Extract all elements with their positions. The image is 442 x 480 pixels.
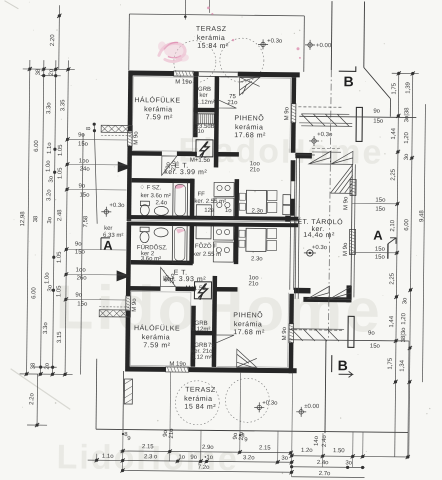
svg-text:FÕZÕ F.: FÕZÕ F. bbox=[195, 243, 218, 250]
faint diagonal top-left corner bbox=[4, 1, 18, 9]
left dim top connector bbox=[23, 68, 75, 71]
et tarolo window upper bbox=[350, 179, 356, 195]
porch bottom dashed edge bbox=[289, 329, 344, 332]
outer wall bottom bbox=[126, 367, 166, 372]
svg-text:2.4o: 2.4o bbox=[322, 435, 328, 447]
porch corner line bbox=[389, 99, 391, 117]
pink dots scattered bbox=[207, 6, 302, 58]
outer wall left bbox=[128, 71, 133, 132]
section line B top 2 bbox=[363, 1, 366, 67]
svg-text:±0.00: ±0.00 bbox=[304, 404, 320, 410]
svg-text:9o: 9o bbox=[75, 292, 82, 298]
lightning bolt upper bbox=[200, 141, 209, 158]
svg-text:1.12m²: 1.12m² bbox=[192, 327, 211, 333]
svg-text:M 9o: M 9o bbox=[284, 106, 290, 120]
side strip line bbox=[93, 124, 98, 224]
terasz upper outline bbox=[129, 14, 304, 16]
svg-text:1,75: 1,75 bbox=[392, 82, 398, 94]
bathroom bottom wall lower bbox=[131, 260, 193, 265]
left dim verticals bbox=[27, 60, 30, 374]
right dim verticals bbox=[395, 73, 399, 457]
svg-text:2.20: 2.20 bbox=[50, 34, 56, 46]
svg-text:1,34: 1,34 bbox=[400, 359, 406, 371]
kitchen right wall lower bbox=[234, 224, 239, 264]
left dim bottom connector bbox=[20, 373, 73, 376]
left window sill bar upper bbox=[101, 125, 132, 132]
porch top floor line bbox=[299, 116, 416, 117]
kitchen left wall lower bbox=[189, 224, 194, 264]
svg-text:14,4o m²: 14,4o m² bbox=[303, 232, 335, 239]
svg-text:3o: 3o bbox=[345, 460, 352, 466]
svg-text:9o: 9o bbox=[368, 331, 375, 337]
svg-text:kerámia: kerámia bbox=[184, 396, 212, 403]
svg-text:2.9o: 2.9o bbox=[202, 445, 214, 451]
et tarolo level mark bbox=[307, 250, 313, 256]
B marker bottom bbox=[332, 355, 353, 377]
bottom row 2 bbox=[88, 460, 292, 462]
piheno upper inner outline bbox=[220, 76, 290, 79]
level cross +0.00 top bbox=[305, 40, 315, 50]
svg-text:2.48: 2.48 bbox=[57, 209, 63, 221]
et tarolo left thin wall bbox=[295, 158, 296, 299]
svg-text:2.4o: 2.4o bbox=[156, 200, 168, 206]
porch top pillar bbox=[356, 107, 362, 141]
bottom row 3 bbox=[123, 470, 292, 472]
toilet upper bbox=[140, 201, 149, 206]
svg-text:FF: FF bbox=[197, 192, 205, 198]
et tarolo top stairs bbox=[309, 151, 353, 164]
col right wall upper bbox=[214, 76, 219, 167]
section line B continuation bbox=[328, 70, 331, 340]
svg-text:B: B bbox=[344, 73, 354, 89]
annex top step thin line bbox=[295, 154, 315, 156]
svg-text:1.50: 1.50 bbox=[333, 448, 345, 454]
svg-text:12,98: 12,98 bbox=[20, 211, 26, 227]
svg-text:1.05: 1.05 bbox=[57, 251, 63, 263]
svg-text:15o: 15o bbox=[75, 249, 86, 255]
svg-text:15o: 15o bbox=[79, 193, 90, 199]
svg-text:9o: 9o bbox=[79, 184, 86, 190]
svg-text:1.12 m²: 1.12 m² bbox=[192, 355, 212, 361]
svg-text:M 9o: M 9o bbox=[343, 196, 349, 210]
bathroom top wall upper bbox=[132, 178, 194, 183]
svg-text:ker: ker bbox=[199, 93, 207, 99]
svg-text:38|3o: 38|3o bbox=[401, 327, 407, 343]
svg-text:TERASZ: TERASZ bbox=[185, 387, 216, 394]
left leaders bbox=[68, 138, 127, 141]
svg-text:17.68 m²: 17.68 m² bbox=[233, 329, 265, 336]
faint pencil diagonal bottom-left bbox=[10, 369, 70, 410]
section line B bottom bbox=[324, 340, 327, 433]
grb room top wall lower bbox=[191, 331, 213, 336]
grb door swing lower bbox=[216, 335, 234, 343]
kitchen right wall upper bbox=[234, 179, 239, 219]
svg-text:6,00: 6,00 bbox=[404, 218, 410, 230]
grb col left wall lower bbox=[191, 306, 196, 367]
et tarolo right wall bbox=[351, 164, 352, 297]
porch bottom zigzag hatch bbox=[291, 329, 344, 342]
svg-text:12a: 12a bbox=[204, 208, 215, 214]
left window sill bar lower bbox=[99, 310, 130, 317]
left dim mid dots bbox=[66, 138, 69, 141]
entry door swing top bbox=[240, 77, 260, 95]
svg-text:3.2o: 3.2o bbox=[46, 189, 52, 201]
svg-text:kerámia: kerámia bbox=[144, 106, 172, 113]
svg-text:15o: 15o bbox=[77, 301, 88, 307]
svg-text:ker. 3.93 m²: ker. 3.93 m² bbox=[163, 276, 206, 283]
svg-text:+0.3o: +0.3o bbox=[262, 400, 278, 406]
svg-text:1.12m²: 1.12m² bbox=[196, 100, 215, 106]
svg-text:2.4o: 2.4o bbox=[317, 460, 329, 466]
svg-text:2,25: 2,25 bbox=[390, 272, 396, 284]
level cross +0.00 bottom bbox=[296, 407, 306, 417]
et tarolo corner stair fan bbox=[330, 164, 352, 193]
svg-text:3.3o: 3.3o bbox=[46, 102, 52, 114]
svg-text:21o: 21o bbox=[194, 129, 205, 135]
svg-text:3o: 3o bbox=[404, 153, 410, 160]
section A arrow upper left bbox=[118, 161, 132, 172]
svg-text:M 19o: M 19o bbox=[175, 80, 192, 86]
svg-text:1.05: 1.05 bbox=[56, 285, 62, 297]
elec room box upper bbox=[196, 140, 213, 157]
bottom row 3 right bbox=[292, 476, 365, 479]
svg-text:9,48: 9,48 bbox=[419, 210, 425, 222]
ground line left stub bbox=[95, 359, 98, 429]
col right wall lower bbox=[212, 276, 217, 367]
svg-text:15 84 m²: 15 84 m² bbox=[184, 404, 216, 411]
section A arrow lower left bbox=[117, 270, 131, 281]
svg-text:+0.3o: +0.3o bbox=[317, 132, 333, 138]
terasz lower dashed circles bbox=[175, 378, 269, 426]
svg-text:♢ F SZ.: ♢ F SZ. bbox=[140, 184, 162, 191]
svg-text:1,44: 1,44 bbox=[391, 127, 397, 139]
svg-text:3.15: 3.15 bbox=[57, 331, 63, 343]
right leaders bbox=[351, 202, 397, 204]
outer wall right bbox=[291, 77, 296, 104]
svg-text:15o: 15o bbox=[373, 119, 384, 125]
svg-text:3.3o: 3.3o bbox=[43, 322, 49, 334]
svg-text:M 9o: M 9o bbox=[282, 326, 288, 340]
halofulke lower inner outline bbox=[130, 292, 191, 367]
piheno lower inner outline bbox=[217, 365, 287, 368]
svg-text:38: 38 bbox=[33, 215, 39, 222]
pink mark lower bathtub bbox=[176, 229, 185, 234]
svg-text:15o: 15o bbox=[375, 255, 386, 261]
svg-text:3o: 3o bbox=[49, 175, 55, 182]
svg-text:1.05: 1.05 bbox=[58, 144, 64, 156]
svg-text:2o: 2o bbox=[45, 362, 51, 369]
svg-text:1oo: 1oo bbox=[76, 267, 87, 273]
sink lower bbox=[154, 228, 168, 237]
svg-text:1,44: 1,44 bbox=[389, 315, 395, 327]
et tarolo bottom wall bbox=[303, 297, 351, 303]
svg-text:15o: 15o bbox=[375, 247, 386, 253]
svg-text:+0.3o: +0.3o bbox=[109, 203, 125, 209]
svg-text:21o: 21o bbox=[248, 281, 259, 287]
svg-text:7,58: 7,58 bbox=[83, 215, 89, 227]
svg-text:3.35: 3.35 bbox=[60, 99, 66, 111]
level cross right top bbox=[309, 136, 319, 146]
svg-text:M 9o: M 9o bbox=[132, 298, 138, 312]
svg-text:7.59 m²: 7.59 m² bbox=[143, 342, 170, 349]
svg-text:21o: 21o bbox=[227, 100, 238, 106]
svg-text:kerámia: kerámia bbox=[142, 334, 170, 341]
porch bottom pillar bbox=[348, 316, 354, 347]
svg-text:A: A bbox=[103, 238, 113, 253]
svg-text:21o: 21o bbox=[250, 167, 261, 173]
svg-text:2.15: 2.15 bbox=[259, 445, 271, 451]
svg-text:1.2o: 1.2o bbox=[301, 448, 313, 454]
svg-text:2,25: 2,25 bbox=[391, 168, 397, 180]
svg-text:15o: 15o bbox=[375, 207, 386, 213]
svg-text:24o: 24o bbox=[80, 167, 91, 173]
svg-text:2.3o: 2.3o bbox=[251, 256, 263, 262]
bottom row 1 bbox=[120, 451, 292, 453]
svg-text:B: B bbox=[338, 357, 348, 373]
svg-text:2,10: 2,10 bbox=[390, 219, 396, 231]
svg-text:PIHENÕ: PIHENÕ bbox=[233, 310, 263, 319]
svg-text:3.6o m²: 3.6o m² bbox=[141, 256, 161, 262]
bottom extension lines bbox=[123, 371, 124, 471]
svg-text:A: A bbox=[373, 228, 383, 243]
top stub line 2 bbox=[208, 0, 210, 13]
svg-text:6.00: 6.00 bbox=[31, 287, 37, 299]
svg-text:1.1o: 1.1o bbox=[102, 454, 114, 460]
svg-text:21o: 21o bbox=[171, 160, 177, 171]
svg-text:7.59 m²: 7.59 m² bbox=[146, 114, 173, 121]
svg-text:1,20: 1,20 bbox=[404, 131, 410, 143]
right wall step upper bbox=[295, 153, 312, 159]
door swing halofulke bbox=[162, 156, 177, 176]
halofulke upper inner outline bbox=[132, 77, 193, 152]
svg-text:15o: 15o bbox=[375, 198, 386, 204]
et tarolo stairs triangles bbox=[307, 286, 351, 299]
svg-text:15.84 m²: 15.84 m² bbox=[197, 43, 229, 50]
svg-text:3.2o: 3.2o bbox=[243, 455, 255, 461]
wall y287 lower (halofulke top) bbox=[126, 286, 160, 291]
pink scribble top bbox=[159, 43, 185, 61]
annex step edge lines bbox=[312, 151, 341, 153]
pink mark upper bathtub bbox=[175, 184, 185, 189]
svg-text:kerámia: kerámia bbox=[234, 321, 262, 328]
section A arrow right bbox=[388, 238, 396, 259]
svg-text:21o: 21o bbox=[169, 428, 175, 439]
terasz lower left edge bbox=[122, 371, 125, 429]
grb door swing upper bbox=[218, 100, 236, 108]
svg-text:2o: 2o bbox=[49, 68, 55, 75]
grb col left wall upper bbox=[193, 76, 198, 137]
svg-text:3o: 3o bbox=[402, 297, 408, 304]
svg-text:1,39: 1,39 bbox=[406, 81, 412, 93]
svg-text:M 19o: M 19o bbox=[169, 361, 186, 367]
kitchen fixtures upper bbox=[214, 182, 234, 196]
right wall middle: glazed thin + dark piers bbox=[291, 160, 296, 181]
right dim top connector bbox=[392, 72, 419, 74]
grb room bottom wall upper bbox=[193, 108, 215, 113]
roof diagonal bbox=[363, 67, 390, 98]
svg-text:38: 38 bbox=[31, 362, 37, 369]
svg-text:1.0o: 1.0o bbox=[45, 272, 51, 284]
entry door swing bottom bbox=[237, 349, 257, 367]
table upper bbox=[246, 190, 266, 213]
svg-text:3o: 3o bbox=[281, 456, 288, 462]
svg-text:1oo: 1oo bbox=[79, 159, 90, 165]
right dim dots R1 bbox=[397, 72, 400, 75]
svg-text:9o: 9o bbox=[78, 132, 85, 138]
svg-text:TERASZ: TERASZ bbox=[196, 26, 227, 33]
central wall bbox=[127, 215, 298, 221]
svg-text:3o: 3o bbox=[47, 284, 53, 291]
svg-text:3o|38: 3o|38 bbox=[404, 107, 410, 123]
svg-text:15o: 15o bbox=[78, 141, 89, 147]
lightning bolt lower bbox=[198, 283, 207, 300]
svg-text:14o: 14o bbox=[314, 435, 320, 446]
svg-text:6.00: 6.00 bbox=[34, 140, 40, 152]
left dim dots top bbox=[28, 67, 31, 70]
svg-text:+0.3o: +0.3o bbox=[312, 245, 328, 251]
bottom row 1 right bbox=[292, 456, 410, 457]
svg-text:9o: 9o bbox=[373, 109, 380, 115]
B marker top bbox=[339, 66, 356, 71]
level cross terasz top bbox=[258, 39, 268, 49]
right dim dots R2 bbox=[411, 72, 414, 75]
section line B top 1 bbox=[330, 1, 333, 70]
table lower bbox=[246, 228, 266, 251]
svg-text:1.1o: 1.1o bbox=[47, 142, 53, 154]
svg-text:+0.00: +0.00 bbox=[316, 43, 332, 49]
small dots terasz bottom edge bbox=[122, 433, 124, 435]
svg-text:kerámia: kerámia bbox=[235, 124, 263, 131]
top stub line 1 bbox=[184, 0, 186, 20]
svg-text:ker 2.55 m: ker 2.55 m bbox=[193, 252, 221, 258]
svg-text:kerámia: kerámia bbox=[197, 35, 225, 42]
svg-text:15o: 15o bbox=[370, 344, 381, 350]
terasz lower pillar hatched bbox=[124, 379, 132, 404]
svg-text:2.7o: 2.7o bbox=[319, 471, 331, 477]
svg-text:ker: ker bbox=[104, 226, 112, 232]
bathtub lower bbox=[172, 225, 187, 262]
ground line bottom bbox=[96, 429, 408, 432]
svg-text:•1o: •1o bbox=[204, 455, 213, 461]
kitchen left wall upper bbox=[190, 179, 195, 219]
svg-text:9o: 9o bbox=[75, 241, 82, 247]
svg-text:1.05: 1.05 bbox=[58, 167, 64, 179]
svg-text:1.0o: 1.0o bbox=[46, 160, 52, 172]
svg-text:2.15: 2.15 bbox=[142, 444, 154, 450]
svg-text:ker. 2.55 m²: ker. 2.55 m² bbox=[194, 199, 226, 205]
wall y152 upper (halofulke bottom) bbox=[128, 151, 162, 156]
svg-text:26o: 26o bbox=[77, 275, 88, 281]
svg-text:PIHENÕ: PIHENÕ bbox=[234, 113, 264, 122]
door swing halofulke lower bbox=[161, 267, 176, 286]
svg-text:9o: 9o bbox=[190, 455, 197, 461]
svg-text:1o: 1o bbox=[225, 208, 232, 214]
svg-text:2.3 o: 2.3 o bbox=[144, 454, 158, 460]
stove piers inside piheno upper bbox=[283, 195, 291, 205]
svg-text:1,20: 1,20 bbox=[401, 312, 407, 324]
svg-text:M+1.5o: M+1.5o bbox=[190, 158, 211, 164]
svg-text:1o: 1o bbox=[178, 455, 185, 461]
svg-text:ker 3.6o m²: ker 3.6o m² bbox=[140, 193, 170, 199]
et tarolo window lower bbox=[349, 229, 355, 254]
bathtub upper bbox=[173, 182, 188, 217]
porch top zigzag hatch bbox=[301, 114, 352, 127]
svg-text:2.3o: 2.3o bbox=[251, 208, 263, 214]
level cross terasz bottom bbox=[254, 402, 264, 412]
svg-text:17.68 m²: 17.68 m² bbox=[234, 132, 266, 139]
left dim dots bottom bbox=[25, 372, 28, 375]
terasz upper dashed circles bbox=[174, 37, 264, 83]
duct hatched box bbox=[195, 114, 214, 124]
svg-text:M 9o: M 9o bbox=[133, 131, 139, 145]
porch top dashed edge bbox=[298, 106, 341, 108]
kitchen fixtures lower bbox=[214, 226, 234, 240]
svg-text:7.2o: 7.2o bbox=[198, 465, 210, 471]
porch bottom floor line bbox=[289, 340, 409, 341]
side strip level cross bbox=[101, 207, 111, 217]
elec room box lower bbox=[194, 282, 211, 299]
right wall step lower bbox=[294, 288, 311, 294]
svg-text:M 9o: M 9o bbox=[343, 242, 349, 256]
svg-text:2.2o: 2.2o bbox=[29, 393, 35, 405]
svg-text:1,75: 1,75 bbox=[388, 357, 394, 369]
toilet lower bbox=[140, 227, 149, 232]
svg-text:38: 38 bbox=[36, 68, 42, 75]
svg-text:3o: 3o bbox=[47, 216, 53, 223]
bottom row 2 right bbox=[292, 466, 365, 469]
outer wall top bbox=[129, 71, 174, 76]
svg-text:+0.3o: +0.3o bbox=[267, 38, 283, 44]
